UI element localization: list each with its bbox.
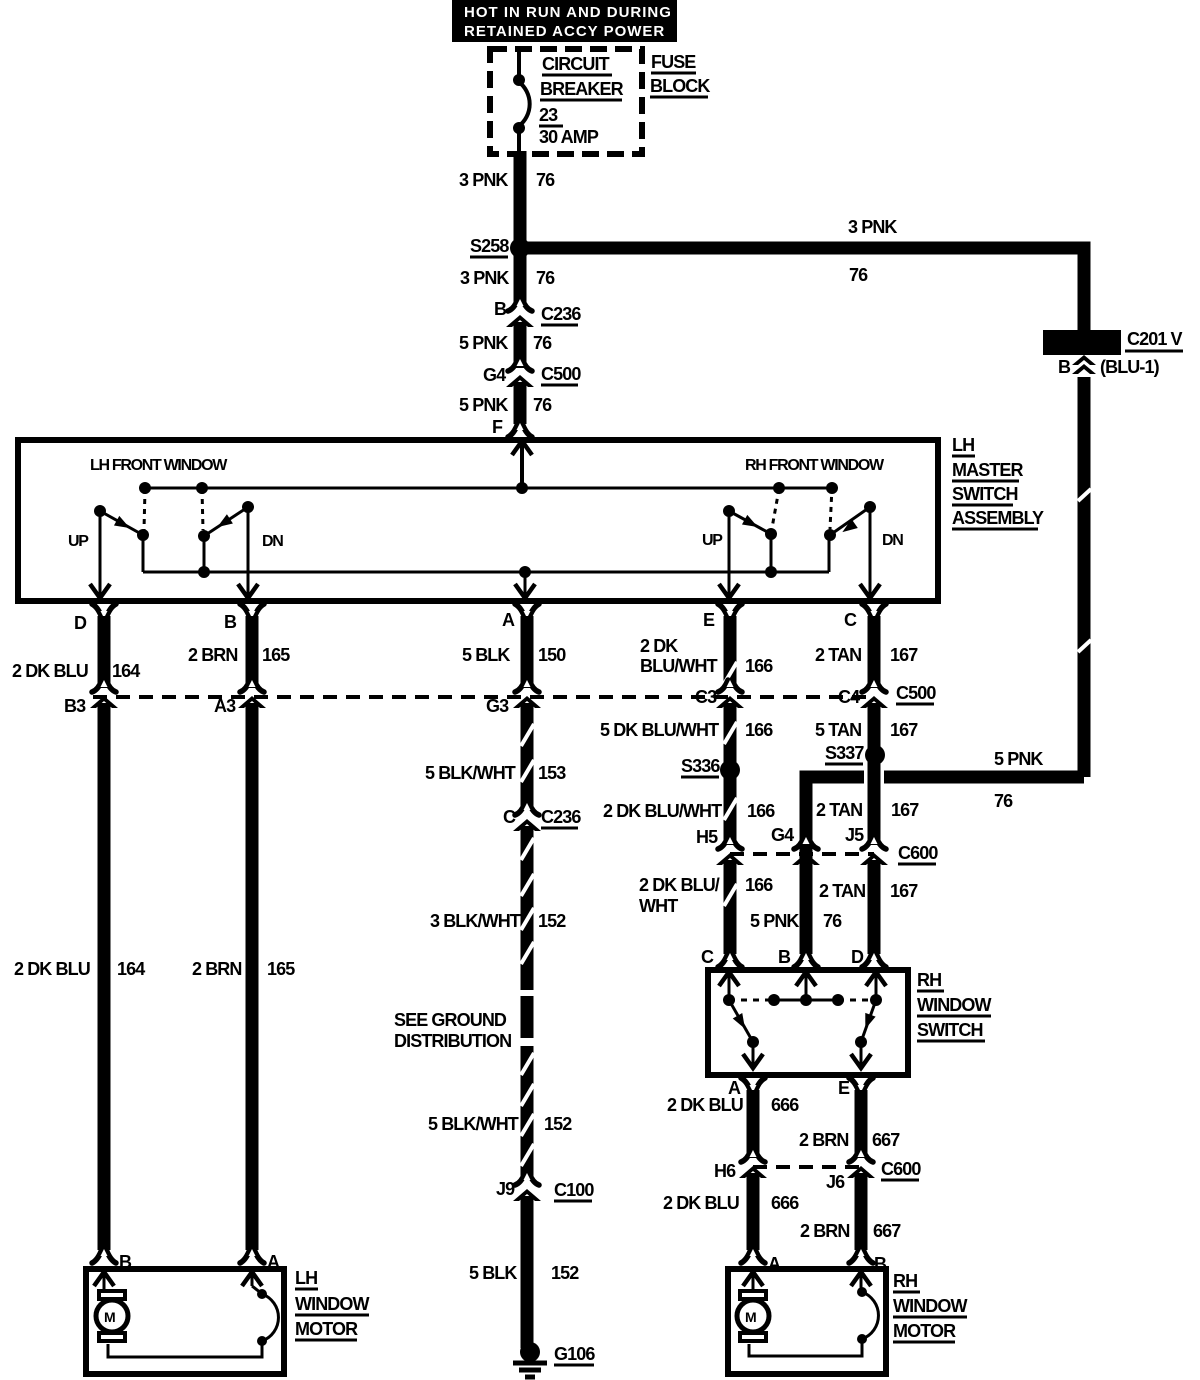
svg-text:H6: H6 bbox=[714, 1161, 736, 1181]
svg-text:5 DK BLU/WHT: 5 DK BLU/WHT bbox=[600, 720, 719, 740]
RH motor B entry arrow bbox=[851, 1272, 871, 1288]
svg-text:5 BLK: 5 BLK bbox=[469, 1263, 517, 1283]
svg-text:2 DK BLU/WHT: 2 DK BLU/WHT bbox=[603, 801, 722, 821]
connector C236 pin C bbox=[503, 803, 581, 831]
svg-text:2 DK BLU: 2 DK BLU bbox=[663, 1193, 739, 1213]
svg-text:G106: G106 bbox=[554, 1344, 595, 1364]
svg-text:J6: J6 bbox=[826, 1172, 845, 1192]
svg-text:2 DK BLU: 2 DK BLU bbox=[14, 959, 90, 979]
connector C236 pin B bbox=[494, 299, 581, 327]
svg-text:DISTRIBUTION: DISTRIBUTION bbox=[394, 1031, 511, 1051]
svg-text:165: 165 bbox=[262, 645, 290, 665]
svg-text:WINDOW: WINDOW bbox=[893, 1296, 967, 1316]
connector pin B (BLU-1) bbox=[1058, 355, 1160, 377]
svg-text:J9: J9 bbox=[496, 1179, 515, 1199]
svg-text:2 BRN: 2 BRN bbox=[799, 1130, 849, 1150]
svg-text:166: 166 bbox=[745, 656, 773, 676]
svg-text:76: 76 bbox=[533, 333, 552, 353]
svg-text:3 BLK/WHT: 3 BLK/WHT bbox=[430, 911, 521, 931]
splice S336 bbox=[681, 756, 740, 780]
LH motor bottom wire bbox=[108, 1344, 262, 1357]
label RH WINDOW SWITCH bbox=[917, 970, 991, 1041]
label RH WINDOW MOTOR bbox=[893, 1271, 967, 1342]
svg-text:J5: J5 bbox=[845, 825, 864, 845]
svg-text:2 DK: 2 DK bbox=[640, 636, 678, 656]
switch pin C connector bbox=[701, 947, 742, 967]
F entry arrow bbox=[512, 441, 532, 488]
connector C500 dashed line bbox=[93, 695, 874, 699]
svg-text:5 PNK: 5 PNK bbox=[459, 333, 508, 353]
pin B output arrow bbox=[238, 510, 258, 598]
circuit breaker 23 symbol bbox=[513, 49, 530, 152]
wire slash marks right wire bbox=[1078, 489, 1091, 501]
svg-text:C500: C500 bbox=[896, 683, 936, 703]
svg-text:166: 166 bbox=[745, 875, 773, 895]
svg-text:FUSE: FUSE bbox=[651, 52, 696, 72]
svg-text:M: M bbox=[104, 1309, 116, 1325]
connector C100 pin J9 bbox=[496, 1173, 594, 1201]
connector J5 and label C600 bbox=[845, 825, 938, 865]
RH window DN switch bbox=[824, 487, 903, 572]
svg-text:166: 166 bbox=[745, 720, 773, 740]
svg-text:30 AMP: 30 AMP bbox=[539, 127, 599, 147]
connector C500 pin G4 bbox=[483, 359, 581, 387]
LH window motor box bbox=[86, 1269, 284, 1374]
pin D output arrow bbox=[90, 514, 110, 598]
svg-text:76: 76 bbox=[536, 268, 555, 288]
ground G106 bbox=[513, 1342, 595, 1377]
pin F entry bbox=[492, 417, 532, 437]
svg-text:167: 167 bbox=[890, 881, 918, 901]
bottom contact rail bbox=[143, 566, 829, 578]
svg-text:WINDOW: WINDOW bbox=[295, 1294, 369, 1314]
svg-text:B: B bbox=[224, 612, 237, 632]
wire 5 PNK 76 bbox=[514, 322, 527, 368]
svg-text:M: M bbox=[745, 1309, 757, 1325]
wire 5 PNK from C201 leg to G4 corner bbox=[806, 749, 1084, 954]
connector J6 and label C600 bbox=[826, 1150, 921, 1192]
svg-text:C236: C236 bbox=[541, 807, 581, 827]
connector C4 and label C500 bbox=[838, 680, 936, 708]
RH window motor box bbox=[728, 1269, 886, 1374]
svg-text:G4: G4 bbox=[483, 365, 506, 385]
svg-text:S336: S336 bbox=[681, 756, 720, 776]
svg-text:C: C bbox=[701, 947, 714, 967]
splice S337 bbox=[825, 743, 885, 765]
svg-text:164: 164 bbox=[112, 661, 140, 681]
label LH MASTER SWITCH ASSEMBLY bbox=[952, 435, 1044, 529]
wire E S336 down to H5 (2 DK BLU/WHT 166) bbox=[603, 770, 775, 845]
svg-text:D: D bbox=[74, 613, 87, 633]
switch left blade to A bbox=[729, 1000, 763, 1068]
svg-text:DN: DN bbox=[882, 532, 903, 549]
LH motor pin B connector bbox=[92, 1249, 132, 1272]
svg-text:SWITCH: SWITCH bbox=[917, 1020, 983, 1040]
see ground distribution wire break bbox=[394, 996, 527, 1051]
wire B A3 to LH motor A (2 BRN 165) bbox=[192, 703, 295, 1250]
RH window UP switch bbox=[702, 489, 779, 572]
svg-text:2 TAN: 2 TAN bbox=[815, 645, 861, 665]
wire B to A3 (2 BRN 165) bbox=[188, 616, 290, 688]
LH window DN switch bbox=[198, 489, 283, 572]
pin A output arrow bbox=[515, 572, 535, 598]
connector H5 bbox=[696, 827, 744, 865]
svg-text:SEE GROUND: SEE GROUND bbox=[394, 1010, 507, 1030]
svg-text:RH: RH bbox=[893, 1271, 917, 1291]
switch pin A connector below bbox=[728, 1078, 765, 1098]
svg-text:MOTOR: MOTOR bbox=[295, 1319, 358, 1339]
switch pin E connector below bbox=[838, 1078, 873, 1098]
wire S258 down bbox=[514, 248, 527, 306]
connector B3 bbox=[64, 680, 118, 716]
label CIRCUIT BREAKER 23 30 AMP bbox=[539, 54, 624, 147]
label LH WINDOW MOTOR bbox=[295, 1268, 369, 1340]
wire C J5 to switch D (2 TAN 167) bbox=[819, 860, 918, 954]
wire H6 to motor A (2 DK BLU 666) bbox=[663, 1173, 799, 1250]
svg-text:B: B bbox=[778, 947, 791, 967]
svg-text:B: B bbox=[494, 299, 507, 319]
svg-text:DN: DN bbox=[262, 533, 283, 550]
label FUSE BLOCK bbox=[650, 52, 710, 97]
svg-text:5 TAN: 5 TAN bbox=[815, 720, 861, 740]
svg-text:2 DK BLU: 2 DK BLU bbox=[12, 661, 88, 681]
svg-text:UP: UP bbox=[702, 532, 723, 549]
LH motor brush arc bbox=[257, 1289, 278, 1346]
svg-text:76: 76 bbox=[823, 911, 842, 931]
wire C S337 down to J5 (2 TAN 167) bbox=[816, 755, 919, 845]
svg-text:SWITCH: SWITCH bbox=[952, 484, 1018, 504]
wire E H5 to switch C (2 DK BLU/WHT 166) bbox=[639, 860, 773, 954]
LH master switch assembly box bbox=[18, 440, 938, 601]
svg-text:D: D bbox=[851, 947, 864, 967]
svg-text:C: C bbox=[503, 807, 516, 827]
svg-text:167: 167 bbox=[890, 645, 918, 665]
svg-text:666: 666 bbox=[771, 1193, 799, 1213]
svg-text:BLU/WHT: BLU/WHT bbox=[640, 656, 718, 676]
wire G4 to switch B (5 PNK 76) bbox=[750, 911, 842, 931]
svg-text:S258: S258 bbox=[470, 236, 509, 256]
wire A to G3 (5 BLK 150) bbox=[462, 616, 566, 688]
pin C connector below box bbox=[844, 604, 886, 630]
svg-text:2 TAN: 2 TAN bbox=[816, 800, 862, 820]
pin E connector below box bbox=[703, 604, 742, 630]
svg-text:3 PNK: 3 PNK bbox=[460, 268, 509, 288]
wire E to C3 (2 DK BLU/WHT 166) bbox=[640, 616, 773, 688]
svg-text:HOT IN RUN AND DURING: HOT IN RUN AND DURING bbox=[464, 4, 672, 21]
connector C600 second dashed line bbox=[753, 1165, 861, 1169]
svg-text:C500: C500 bbox=[541, 364, 581, 384]
connector C600 dashed line bbox=[730, 852, 874, 856]
pin B connector below box bbox=[224, 604, 264, 632]
RH motor M armature bbox=[737, 1291, 769, 1341]
pin A connector below box bbox=[502, 604, 539, 630]
connector G4 bbox=[771, 825, 820, 865]
svg-text:E: E bbox=[838, 1078, 850, 1098]
svg-text:C236: C236 bbox=[541, 304, 581, 324]
svg-text:2 DK BLU/: 2 DK BLU/ bbox=[639, 875, 720, 895]
svg-text:C: C bbox=[844, 610, 857, 630]
switch pin D connector bbox=[851, 947, 886, 967]
svg-text:LH FRONT WINDOW: LH FRONT WINDOW bbox=[90, 457, 228, 474]
pin C output arrow bbox=[860, 510, 880, 598]
motor pin A connector bbox=[741, 1249, 781, 1274]
wire E C3 to S336 (5 DK BLU/WHT 166) bbox=[600, 703, 773, 770]
wire C100 to G106 (5 BLK 152) bbox=[469, 1196, 579, 1348]
svg-text:CIRCUIT: CIRCUIT bbox=[542, 54, 610, 74]
svg-text:2 TAN: 2 TAN bbox=[819, 881, 865, 901]
RH motor A entry arrow bbox=[743, 1272, 763, 1290]
motor pin B connector bbox=[849, 1249, 887, 1274]
svg-text:153: 153 bbox=[538, 763, 566, 783]
svg-text:LH: LH bbox=[295, 1268, 317, 1288]
svg-text:C4: C4 bbox=[838, 687, 860, 707]
svg-text:5 BLK/WHT: 5 BLK/WHT bbox=[428, 1114, 519, 1134]
wire J6 to motor B (2 BRN 667) bbox=[800, 1173, 901, 1250]
top contact rail bbox=[139, 482, 838, 494]
switch D entry arrow bbox=[866, 972, 886, 1000]
svg-text:G4: G4 bbox=[771, 825, 794, 845]
wire down to C100 (5 BLK/WHT 152) bbox=[428, 1046, 572, 1178]
wire S258 to C201 (3 PNK 76) bbox=[520, 248, 1084, 330]
svg-text:WHT: WHT bbox=[639, 896, 678, 916]
wire C C4 to S337 (5 TAN 167) bbox=[815, 703, 918, 755]
svg-text:5 PNK: 5 PNK bbox=[994, 749, 1043, 769]
LH motor B entry arrow bbox=[94, 1272, 114, 1290]
svg-text:164: 164 bbox=[117, 959, 145, 979]
wire 5 PNK 76 to F bbox=[514, 382, 527, 424]
svg-text:F: F bbox=[492, 417, 503, 437]
fuse block dashed box bbox=[490, 49, 642, 154]
svg-text:167: 167 bbox=[890, 720, 918, 740]
RH motor brush arc bbox=[857, 1287, 878, 1344]
svg-text:C600: C600 bbox=[898, 843, 938, 863]
svg-text:RH FRONT WINDOW: RH FRONT WINDOW bbox=[745, 457, 885, 474]
LH motor pin A connector bbox=[240, 1249, 280, 1272]
svg-text:C600: C600 bbox=[881, 1159, 921, 1179]
svg-text:76: 76 bbox=[536, 170, 555, 190]
svg-text:5 BLK/WHT: 5 BLK/WHT bbox=[425, 763, 516, 783]
svg-text:C100: C100 bbox=[554, 1180, 594, 1200]
svg-text:E: E bbox=[703, 610, 715, 630]
wire D B3 to LH motor B (2 DK BLU 164) bbox=[14, 703, 145, 1250]
svg-text:76: 76 bbox=[849, 265, 868, 285]
pin D connector below box bbox=[74, 604, 116, 633]
svg-text:ASSEMBLY: ASSEMBLY bbox=[952, 508, 1044, 528]
svg-text:166: 166 bbox=[747, 801, 775, 821]
LH window UP switch bbox=[68, 489, 149, 572]
wire E to J6 (2 BRN 667) bbox=[799, 1090, 900, 1158]
svg-text:B3: B3 bbox=[64, 696, 86, 716]
connector G3 bbox=[486, 680, 541, 716]
switch right blade to E bbox=[851, 1000, 876, 1068]
svg-text:UP: UP bbox=[68, 533, 89, 550]
connector C3 bbox=[695, 680, 744, 708]
svg-text:152: 152 bbox=[551, 1263, 579, 1283]
svg-text:A: A bbox=[502, 610, 515, 630]
svg-text:BLOCK: BLOCK bbox=[650, 76, 710, 96]
RH window switch box bbox=[708, 970, 908, 1075]
svg-text:152: 152 bbox=[538, 911, 566, 931]
svg-text:667: 667 bbox=[872, 1130, 900, 1150]
svg-text:76: 76 bbox=[533, 395, 552, 415]
wire A G3 to C236 (5 BLK/WHT 153) bbox=[425, 703, 566, 808]
svg-text:5 BLK: 5 BLK bbox=[462, 645, 510, 665]
svg-text:150: 150 bbox=[538, 645, 566, 665]
svg-text:MOTOR: MOTOR bbox=[893, 1321, 956, 1341]
svg-text:RETAINED ACCY POWER: RETAINED ACCY POWER bbox=[464, 23, 665, 40]
wire breaker to S258 bbox=[514, 151, 527, 248]
svg-text:S337: S337 bbox=[825, 743, 864, 763]
svg-text:165: 165 bbox=[267, 959, 295, 979]
svg-text:2 BRN: 2 BRN bbox=[800, 1221, 850, 1241]
connector A3 bbox=[214, 680, 266, 716]
connector H6 bbox=[714, 1150, 767, 1181]
svg-text:23: 23 bbox=[539, 105, 558, 125]
wire C to C4 (2 TAN 167) bbox=[815, 616, 918, 688]
wire C236 down (3 BLK/WHT 152) bbox=[430, 826, 566, 990]
switch contact rail bbox=[723, 994, 882, 1006]
svg-text:LH: LH bbox=[952, 435, 974, 455]
svg-text:RH: RH bbox=[917, 970, 941, 990]
svg-text:2 DK BLU: 2 DK BLU bbox=[667, 1095, 743, 1115]
header black box HOT IN RUN bbox=[452, 0, 677, 42]
svg-text:76: 76 bbox=[994, 791, 1013, 811]
switch pin B connector bbox=[778, 947, 818, 967]
svg-text:C3: C3 bbox=[695, 687, 717, 707]
svg-text:5 PNK: 5 PNK bbox=[750, 911, 799, 931]
svg-text:667: 667 bbox=[873, 1221, 901, 1241]
svg-text:3 PNK: 3 PNK bbox=[459, 170, 508, 190]
svg-text:5 PNK: 5 PNK bbox=[459, 395, 508, 415]
LH motor M armature bbox=[96, 1291, 128, 1341]
svg-text:BREAKER: BREAKER bbox=[540, 79, 624, 99]
svg-text:152: 152 bbox=[544, 1114, 572, 1134]
svg-text:3 PNK: 3 PNK bbox=[848, 217, 897, 237]
RH motor bottom wire bbox=[749, 1342, 862, 1356]
pin E output arrow bbox=[719, 514, 739, 598]
svg-text:666: 666 bbox=[771, 1095, 799, 1115]
svg-text:MASTER: MASTER bbox=[952, 460, 1024, 480]
svg-text:H5: H5 bbox=[696, 827, 718, 847]
svg-text:A3: A3 bbox=[214, 696, 236, 716]
switch C entry arrow bbox=[719, 972, 739, 1000]
svg-text:167: 167 bbox=[891, 800, 919, 820]
svg-text:2 BRN: 2 BRN bbox=[192, 959, 242, 979]
wire A to H6 (2 DK BLU 666) bbox=[667, 1090, 799, 1158]
svg-text:2 BRN: 2 BRN bbox=[188, 645, 238, 665]
switch B entry arrow bbox=[796, 972, 816, 1000]
LH motor A entry arrow bbox=[242, 1272, 262, 1293]
svg-text:C201 V: C201 V bbox=[1127, 329, 1183, 349]
splice S258 bbox=[510, 238, 530, 258]
svg-text:(BLU-1): (BLU-1) bbox=[1100, 357, 1160, 377]
svg-text:G3: G3 bbox=[486, 696, 509, 716]
wire C201 down right side bbox=[1078, 377, 1091, 777]
wire D to B3 (2 DK BLU 164) bbox=[12, 616, 140, 688]
svg-text:WINDOW: WINDOW bbox=[917, 995, 991, 1015]
svg-text:B: B bbox=[1058, 357, 1071, 377]
connector C201 V bbox=[1043, 329, 1183, 355]
